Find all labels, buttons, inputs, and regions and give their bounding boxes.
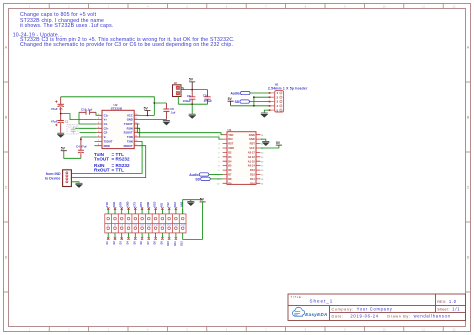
wire top rail C5 to U2 area (61, 97, 167, 103)
wire C4 bottom to 5V (64, 151, 81, 158)
capacitor C1 (51, 114, 69, 133)
svg-text:A0-14: A0-14 (248, 164, 256, 168)
svg-text:7 8: 7 8 (127, 224, 129, 226)
svg-text:GND: GND (127, 201, 130, 207)
svg-text:D: D (467, 256, 470, 260)
svg-text:1/1: 1/1 (452, 306, 460, 311)
svg-text:D10: D10 (250, 181, 255, 185)
svg-text:Company:: Company: (332, 307, 354, 311)
svg-text:C: C (5, 186, 8, 190)
wire GND row to ground (140, 119, 167, 121)
svg-text:RX2: RX2 (174, 201, 177, 206)
svg-text:1 2: 1 2 (107, 224, 109, 226)
svg-text:= TTL: = TTL (112, 168, 125, 173)
svg-text:D11: D11 (174, 241, 177, 246)
5V flag at header (200, 198, 206, 202)
svg-text:1.0: 1.0 (449, 299, 457, 304)
svg-text:.1uf: .1uf (170, 111, 175, 115)
wire VCC row (140, 103, 155, 115)
capacitor C5 (51, 97, 64, 114)
wire J1 pin3 to ground (71, 182, 79, 183)
svg-text:D12: D12 (250, 173, 255, 177)
svg-text:D8: D8 (228, 177, 232, 181)
svg-text:13 14: 13 14 (147, 224, 151, 226)
svg-text:GND: GND (127, 118, 133, 122)
svg-text:RAW: RAW (249, 133, 256, 137)
svg-text:D7: D7 (228, 173, 232, 177)
svg-text:Sheet:: Sheet: (437, 307, 449, 311)
wire R1IN long to U1 RXI (137, 128, 223, 139)
svg-text:21 22: 21 22 (174, 224, 178, 226)
svg-text:EasyEDA: EasyEDA (305, 312, 327, 317)
junction 5V branch pin2 (253, 96, 255, 98)
svg-text:V+: V+ (104, 118, 108, 122)
svg-text:RST: RST (228, 142, 234, 146)
bottom header pins, stubs, labels (106, 201, 185, 245)
svg-text:D12: D12 (181, 241, 184, 246)
svg-text:5V: 5V (200, 198, 205, 202)
svg-text:R2OUT: R2OUT (124, 144, 133, 148)
junction node (60, 113, 62, 115)
svg-text:RxOUT: RxOUT (94, 168, 110, 173)
svg-text:SD: SD (195, 177, 200, 181)
capacitor C4 (76, 137, 86, 158)
wire pin2 branch (254, 97, 270, 106)
svg-text:C1+: C1+ (104, 113, 109, 117)
net port SD (U1) (195, 177, 210, 181)
svg-text:A2-16: A2-16 (248, 155, 256, 159)
svg-text:R1IN: R1IN (127, 126, 133, 130)
svg-text:RI2: RI2 (160, 202, 163, 206)
5V flag small (228, 97, 234, 106)
svg-text:U1: U1 (228, 128, 232, 132)
wire T1OUT long to U1 TXD (137, 124, 223, 135)
svg-text:GN2: GN2 (181, 201, 184, 207)
svg-text:19 20: 19 20 (167, 224, 171, 226)
wire C2+ (75, 127, 96, 129)
ghost capacitor C3 (greyed) (67, 124, 78, 134)
svg-text:C8: C8 (187, 94, 191, 98)
svg-text:100uF: 100uF (183, 99, 192, 103)
svg-text:C1: C1 (65, 119, 69, 123)
svg-text:VCC: VCC (249, 146, 255, 150)
ground under C1 (57, 133, 65, 138)
svg-text:R1OUT: R1OUT (124, 131, 133, 135)
IC U1 (217, 128, 264, 185)
svg-text:47uF: 47uF (51, 119, 58, 123)
title block (288, 294, 466, 321)
svg-text:A1-15: A1-15 (248, 159, 256, 163)
svg-text:2.54mm 1 X 5p header: 2.54mm 1 X 5p header (268, 86, 308, 90)
svg-text:RXI: RXI (228, 137, 233, 141)
svg-text:17 18: 17 18 (160, 224, 164, 226)
net port Audio (U1) (189, 173, 209, 177)
svg-text:SD: SD (235, 100, 240, 104)
capacitor C8 (183, 90, 196, 105)
svg-text:47uF: 47uF (51, 107, 58, 111)
svg-text:VCC: VCC (127, 113, 133, 117)
svg-text:REV:: REV: (437, 300, 446, 304)
svg-text:3 4: 3 4 (114, 224, 116, 226)
svg-text:RTS: RTS (140, 202, 143, 207)
svg-text:C10: C10 (203, 94, 209, 98)
ground on header wire (187, 200, 195, 206)
svg-text:CTS: CTS (133, 202, 136, 207)
svg-text:Audio: Audio (189, 173, 198, 177)
note text block (13, 12, 235, 48)
connector J1 from IND (45, 170, 71, 187)
capacitor C6 (163, 103, 175, 120)
svg-text:Changed the schematic to provi: Changed the schematic to provide for C3 … (20, 42, 233, 48)
svg-text:D9: D9 (228, 181, 232, 185)
svg-text:DTR: DTR (120, 202, 123, 207)
net port Audio (top) (230, 91, 250, 95)
IC U2 ST232B (97, 103, 140, 149)
capacitor C10b (203, 90, 212, 105)
wire V+ from junction to U2 pin (61, 114, 97, 120)
big TTL / RS232 text (94, 152, 130, 172)
svg-text:ST232B: ST232B (111, 107, 123, 111)
wire C10 left to C1- pin (79, 112, 97, 124)
svg-text:5V: 5V (228, 97, 233, 101)
svg-text:15 16: 15 16 (153, 224, 157, 226)
stub T2OUT/R2IN left pins (95, 141, 97, 145)
top rail (181, 89, 208, 91)
wire Audio to H1 pin1 (250, 92, 270, 94)
wire V- row (81, 136, 97, 138)
wire 5V to H1 pin4 (231, 105, 270, 107)
capacitor C10 horizontal (79, 107, 96, 114)
wire R2OUT down to J1 pin2 (71, 146, 145, 178)
svg-text:5V: 5V (61, 147, 66, 151)
5V flag at U2 VCC (144, 106, 151, 115)
svg-text:TXD: TXD (106, 202, 109, 207)
svg-text:to Device: to Device (45, 177, 61, 181)
bottom rail (178, 103, 207, 105)
ground under rails (191, 104, 193, 114)
wire pin5 to ground (264, 110, 269, 113)
svg-text:11 12: 11 12 (140, 224, 144, 226)
svg-text:C1-: C1- (104, 122, 108, 126)
svg-text:T2IN: T2IN (127, 140, 133, 144)
svg-text:C2+: C2+ (104, 126, 109, 130)
svg-text:075uF: 075uF (204, 99, 213, 103)
svg-text:D5: D5 (228, 164, 232, 168)
svg-text:DSR: DSR (147, 201, 150, 206)
svg-text:DCD: DCD (154, 201, 157, 206)
svg-text:TX2: TX2 (167, 202, 170, 207)
svg-text:D: D (5, 256, 8, 260)
svg-text:RST: RST (250, 142, 256, 146)
header H1 1x5 (268, 83, 308, 113)
svg-text:R2IN: R2IN (104, 144, 110, 148)
wire C10 right to C1+ pin (95, 112, 98, 115)
5V flag left (61, 147, 67, 151)
left pin names (104, 113, 113, 147)
svg-text:D11: D11 (250, 177, 255, 181)
frame row letters (5, 46, 470, 260)
svg-text:5V: 5V (144, 106, 149, 110)
svg-text:D6: D6 (228, 168, 232, 172)
svg-text:5 6: 5 6 (121, 224, 123, 226)
svg-text:C3 .1uf: C3 .1uf (68, 125, 77, 129)
ground at J1 (75, 183, 83, 188)
svg-text:D13: D13 (250, 168, 255, 172)
wire C2- (80, 132, 97, 134)
svg-text:Date:: Date: (332, 314, 344, 318)
svg-text:C2-: C2- (104, 131, 108, 135)
svg-text:A3-17: A3-17 (248, 151, 256, 155)
wire SD to H1 pin3 (249, 101, 269, 103)
wire bottom header right end bottom (183, 202, 203, 240)
junction bottom rail at C8 (191, 103, 193, 105)
svg-text:from IND: from IND (46, 172, 61, 176)
right pin stubs (134, 115, 139, 145)
svg-text:C: C (467, 186, 470, 190)
svg-text:RXD: RXD (113, 201, 116, 206)
svg-text:TITLE:: TITLE: (291, 295, 304, 299)
svg-text:TxOUT: TxOUT (94, 157, 109, 162)
junction at VCC/5V (147, 115, 149, 117)
svg-text:= RS232: = RS232 (112, 157, 130, 162)
svg-text:TXD: TXD (228, 133, 233, 137)
svg-text:D4: D4 (228, 159, 232, 163)
left pin stubs (97, 115, 102, 145)
svg-text:D2: D2 (228, 151, 232, 155)
bottom header P1 2x12 (105, 214, 186, 233)
svg-text:5V: 5V (276, 141, 281, 145)
right pin names (124, 113, 133, 147)
5V flag top (189, 77, 195, 89)
svg-text:Sheet_1: Sheet_1 (310, 298, 334, 303)
svg-text:Your Company: Your Company (357, 306, 393, 311)
wire bottom header right end top (183, 200, 203, 214)
svg-text:2019-06-24: 2019-06-24 (350, 313, 378, 318)
svg-text:T1IN: T1IN (127, 135, 133, 139)
wire U1 GND to ground (260, 139, 265, 141)
svg-text:D3: D3 (228, 155, 232, 159)
svg-text:C5: C5 (59, 107, 63, 111)
svg-text:wendallhanson: wendallhanson (414, 313, 451, 318)
svg-text:T1OUT: T1OUT (124, 122, 133, 126)
svg-text:Drawn By:: Drawn By: (387, 314, 410, 318)
svg-text:V-: V- (104, 135, 107, 139)
wire U1 VCC to 5V (260, 145, 279, 148)
svg-text:C10 .1uf: C10 .1uf (81, 107, 92, 111)
svg-text:T2OUT: T2OUT (104, 140, 113, 144)
junction 5V branch pin4 (253, 105, 255, 107)
svg-text:it shows. The ST232B uses .1uf: it shows. The ST232B uses .1uf caps. (20, 23, 113, 29)
junction top rail at C8 (191, 89, 193, 91)
EasyEDA logo (292, 307, 327, 317)
svg-text:9 10: 9 10 (134, 224, 137, 226)
svg-text:D10: D10 (167, 241, 170, 246)
wire T2IN down to J1 pin1 (71, 141, 142, 173)
svg-text:Audio: Audio (230, 92, 239, 96)
svg-text:GND: GND (228, 146, 234, 150)
wire J2 to rails (178, 88, 183, 104)
net port SD (top) (235, 100, 250, 104)
svg-text:5V: 5V (189, 77, 194, 81)
svg-text:GND: GND (249, 137, 255, 141)
connector J2 (173, 81, 182, 97)
junction at top rail corner (153, 102, 155, 104)
ground under C6 (162, 121, 170, 126)
svg-text:23 24: 23 24 (181, 224, 185, 226)
pin numbers (98, 114, 138, 146)
